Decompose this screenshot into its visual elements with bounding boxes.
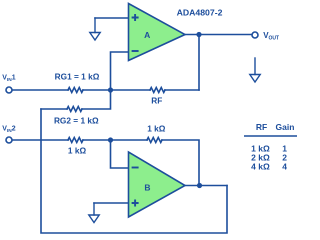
svg-text:B: B [144,183,150,193]
svg-text:VIN1: VIN1 [2,75,15,84]
node A inverting junction [108,87,113,92]
wire VIN1 input line (net A inverting node) [12,89,68,91]
svg-text:1 kΩ: 1 kΩ [147,124,166,134]
svg-text:ADA4807-2: ADA4807-2 [177,8,223,18]
op-amp B [129,152,186,217]
wire A output [185,34,252,36]
terminal VOUT [252,32,258,38]
resistor RF [150,88,165,93]
wire RG2 to node [82,90,111,109]
table underline [244,135,297,137]
wire B output loop to RG2 [41,109,227,233]
svg-text:Gain: Gain [276,122,295,132]
wire RF to feedback vertical [165,89,199,91]
wire VIN2 input line [12,139,68,141]
svg-text:RG2 = 1 kΩ: RG2 = 1 kΩ [54,115,99,125]
terminal VIN1 [6,87,12,93]
wire A noninverting input [95,17,128,19]
resistor RG2 [67,107,82,112]
ground below VOUT [254,58,256,75]
wire RG1 to node [83,89,150,91]
svg-text:RG1 = 1 kΩ: RG1 = 1 kΩ [55,72,100,82]
terminal VIN2 [6,137,12,143]
svg-text:4: 4 [282,161,287,171]
svg-text:A: A [144,30,150,40]
resistor 1k (B feedback) [147,138,162,143]
op-amp A [129,4,186,61]
svg-text:VOUT: VOUT [263,31,279,41]
resistor 1k (VIN2) [68,138,83,143]
wire B output [185,185,227,187]
wire RG2 branch [41,108,67,110]
resistor RG1 [68,88,83,93]
node B output junction [197,183,202,188]
svg-text:RF: RF [151,95,162,105]
svg-text:VIN2: VIN2 [2,126,15,135]
ground at B noninverting input [93,203,95,215]
node A output junction [196,32,201,37]
node B inverting junction [108,137,113,142]
svg-text:1 kΩ: 1 kΩ [68,146,87,156]
wire B feedback to output [162,140,199,186]
wire VIN2 node [83,139,147,141]
wire node to A inverting input [111,52,129,90]
wire node to B inverting input [111,140,129,168]
svg-text:4 kΩ: 4 kΩ [251,161,270,171]
svg-text:RF: RF [256,122,267,132]
wire B noninverting input [94,202,128,204]
wire A feedback vertical [198,35,200,91]
ground at A noninverting input [94,18,96,33]
